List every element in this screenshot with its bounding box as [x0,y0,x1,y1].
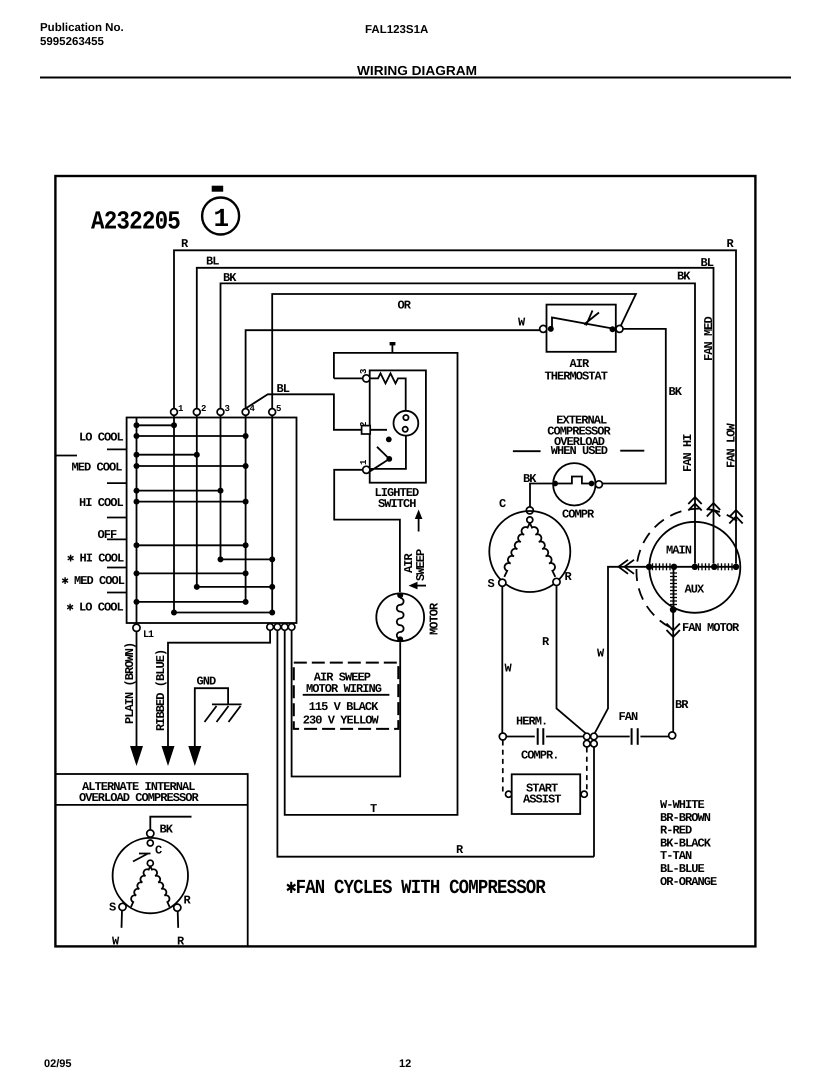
svg-text:✱ HI COOL: ✱ HI COOL [67,552,124,566]
svg-text:WIRING DIAGRAM: WIRING DIAGRAM [357,63,477,78]
svg-text:3: 3 [225,404,230,414]
svg-text:HI COOL: HI COOL [79,496,124,510]
svg-text:WHEN USED: WHEN USED [551,444,608,458]
svg-text:R: R [727,237,735,251]
svg-text:Publication No.: Publication No. [40,22,124,34]
svg-text:W: W [505,662,513,676]
svg-text:FAN HI: FAN HI [681,434,695,472]
svg-text:LO COOL: LO COOL [79,431,124,445]
svg-text:ASSIST: ASSIST [523,793,561,807]
svg-text:C: C [499,497,506,511]
svg-text:1: 1 [359,459,369,465]
svg-text:BL: BL [206,255,219,269]
svg-text:✱ LO COOL: ✱ LO COOL [67,601,124,615]
svg-text:5: 5 [276,404,281,414]
svg-text:MOTOR: MOTOR [428,602,442,635]
svg-text:12: 12 [399,1058,411,1070]
svg-text:MED COOL: MED COOL [72,461,123,475]
svg-text:5995263455: 5995263455 [40,36,105,48]
svg-text:THERMOSTAT: THERMOSTAT [545,370,608,384]
svg-text:COMPR: COMPR [562,508,595,522]
svg-text:L1: L1 [143,630,154,641]
svg-text:1: 1 [214,204,229,234]
svg-text:✱FAN CYCLES WITH COMPRESSOR: ✱FAN CYCLES WITH COMPRESSOR [286,877,546,900]
svg-text:115 V BLACK: 115 V BLACK [309,700,380,714]
svg-text:OR: OR [398,299,412,313]
svg-text:R: R [184,894,192,908]
svg-text:R: R [456,843,464,857]
svg-text:R: R [565,570,573,584]
svg-text:FAL123S1A: FAL123S1A [365,24,428,36]
svg-text:SWEEP: SWEEP [414,549,428,581]
svg-text:OR-ORANGE: OR-ORANGE [660,875,717,889]
svg-text:FAN: FAN [619,710,639,724]
svg-text:SWITCH: SWITCH [378,497,416,511]
svg-text:OVERLOAD COMPRESSOR: OVERLOAD COMPRESSOR [79,791,200,805]
svg-text:AUX: AUX [685,583,706,597]
svg-text:1: 1 [178,404,184,414]
svg-text:R: R [542,635,550,649]
svg-text:FAN MOTOR: FAN MOTOR [682,621,740,635]
svg-text:S: S [109,901,116,915]
svg-text:BR: BR [675,698,689,712]
svg-text:A232205: A232205 [91,207,180,237]
svg-text:BK: BK [160,823,174,837]
svg-text:FAN LOW: FAN LOW [725,422,739,468]
svg-text:RIBBED (BLUE): RIBBED (BLUE) [154,650,168,731]
svg-text:COMPR.: COMPR. [521,749,559,763]
svg-text:GND: GND [197,675,217,689]
svg-text:BK: BK [669,385,683,399]
svg-text:02/95: 02/95 [44,1058,72,1070]
svg-text:R: R [181,237,189,251]
svg-text:✱ MED COOL: ✱ MED COOL [62,574,125,588]
svg-text:MAIN: MAIN [666,544,692,558]
svg-text:HERM.: HERM. [516,715,547,729]
svg-text:3: 3 [359,369,369,374]
svg-text:W: W [597,647,605,661]
svg-text:2: 2 [201,404,206,414]
svg-text:FAN MED: FAN MED [702,316,716,361]
svg-text:S: S [488,577,495,591]
svg-text:C: C [155,844,162,858]
svg-text:230 V YELLOW: 230 V YELLOW [303,714,380,728]
svg-text:PLAIN (BROWN): PLAIN (BROWN) [123,643,137,724]
svg-text:W: W [518,316,526,330]
svg-text:BK: BK [677,270,691,284]
svg-text:T: T [370,802,377,816]
svg-text:2: 2 [359,422,369,427]
